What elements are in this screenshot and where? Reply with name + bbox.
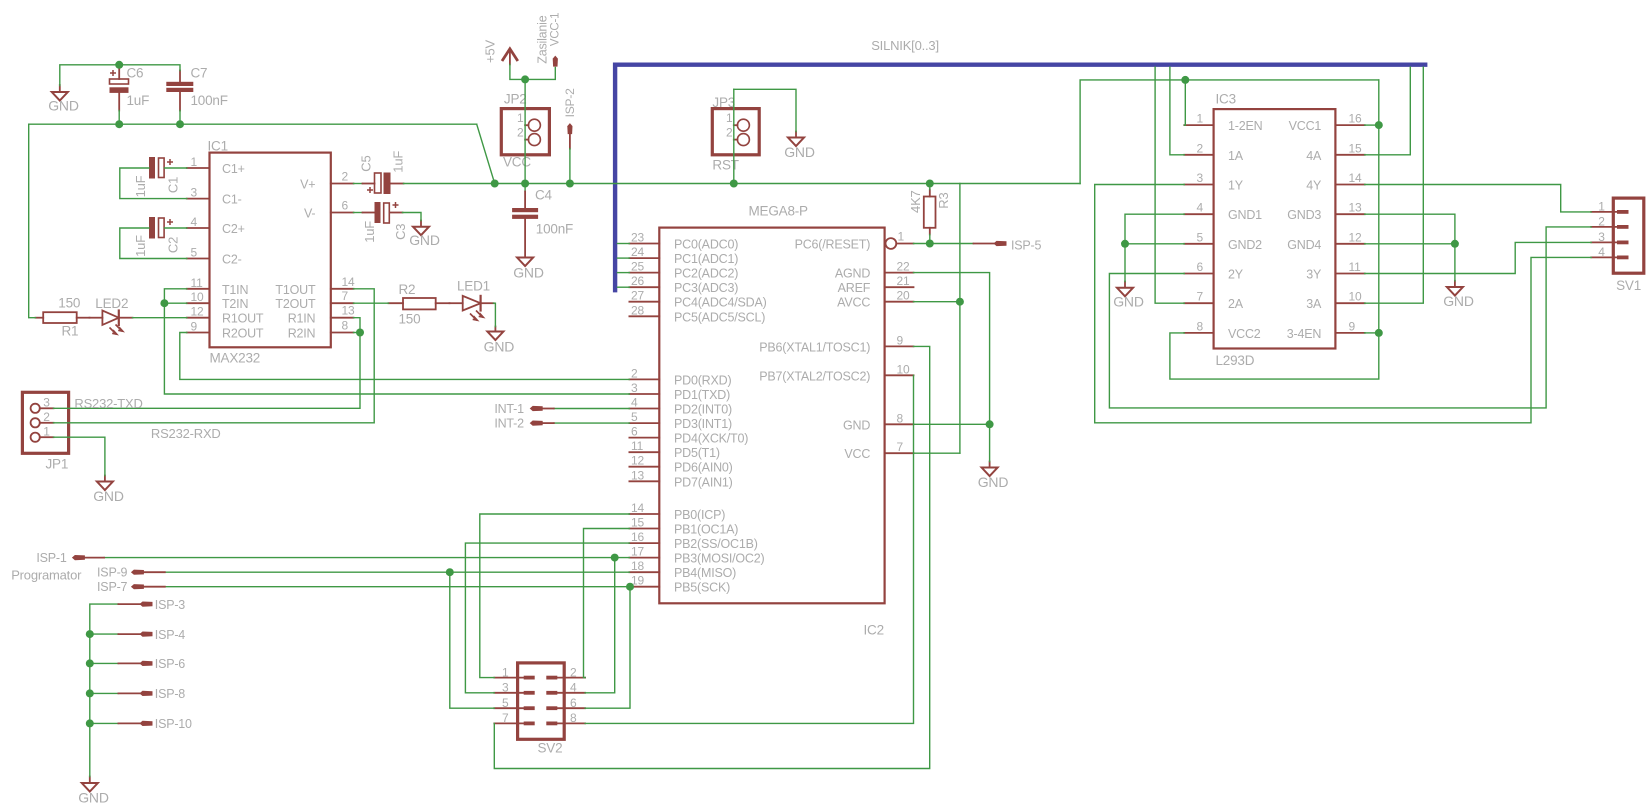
wire PB0 to SV2 pin1 (480, 514, 630, 678)
SV1 pin 1 (1591, 199, 1628, 213)
svg-text:9: 9 (1349, 319, 1356, 333)
flag ISP-6 (118, 657, 185, 671)
svg-text:10: 10 (191, 290, 204, 304)
wire C5 to +5V rail (391, 183, 495, 185)
svg-text:PD3(INT1): PD3(INT1) (674, 417, 732, 431)
wire ISP-6 branch (90, 662, 119, 664)
svg-text:13: 13 (342, 304, 355, 318)
wire PB7 XTAL2 to SV2 pin8 (585, 375, 913, 723)
svg-text:T1OUT: T1OUT (275, 283, 316, 297)
flag ISP-3 (118, 598, 185, 612)
svg-text:1Y: 1Y (1228, 179, 1244, 193)
junction at C6 top (115, 61, 123, 69)
LED1 (450, 279, 494, 321)
svg-text:3: 3 (631, 381, 638, 395)
junction ISP-6 (86, 659, 94, 667)
junction +5V node (521, 75, 529, 83)
svg-text:1: 1 (43, 424, 50, 438)
+5V supply symbol (483, 40, 518, 65)
svg-text:ISP-9: ISP-9 (97, 566, 128, 580)
svg-text:23: 23 (631, 231, 644, 245)
svg-text:18: 18 (631, 559, 644, 573)
svg-text:SV1: SV1 (1616, 278, 1641, 293)
svg-text:PD6(AIN0): PD6(AIN0) (674, 461, 733, 475)
JP2 name label (504, 92, 527, 107)
ground symbol below ISP chain (78, 777, 109, 806)
svg-text:1uF: 1uF (391, 151, 406, 173)
svg-text:PB4(MISO): PB4(MISO) (674, 566, 736, 580)
svg-text:R1OUT: R1OUT (222, 312, 264, 326)
ground symbol near C6 (48, 85, 79, 114)
bus SILNIK[0..3] (615, 65, 1425, 291)
IC2 pin 13 PD7(AIN1) (629, 468, 732, 489)
wire IC3 GND1/GND2 (1125, 214, 1184, 281)
svg-text:C1-: C1- (222, 193, 242, 207)
svg-text:10: 10 (1349, 290, 1362, 304)
wire T1OUT to JP1 pin2 RS232-RXD (54, 289, 375, 423)
IC2 pin 12 PD6(AIN0) (629, 454, 732, 475)
wire LED2 to R1OUT (133, 317, 187, 319)
wire VCC right vertical (1170, 80, 1379, 379)
IC1 pin 9 R2OUT (187, 320, 264, 341)
IC2 pin 15 PB1(OC1A) (629, 516, 738, 537)
wire R1IN/R2IN to JP1 pin3 RS232-TXD (54, 318, 361, 409)
svg-text:GND: GND (409, 232, 440, 248)
IC2 pin 17 PB3(MOSI/OC2) (629, 545, 764, 566)
junction rail JP2 (521, 180, 529, 188)
svg-text:GND: GND (78, 790, 109, 806)
wire RESET to ISP-5 (914, 243, 996, 245)
IC3 value L293D (1216, 353, 1255, 368)
svg-text:C1: C1 (166, 177, 181, 193)
svg-text:12: 12 (1349, 230, 1362, 244)
svg-text:5: 5 (1197, 230, 1204, 244)
svg-text:IC3: IC3 (1216, 92, 1236, 107)
flag ISP-1 (36, 551, 85, 565)
svg-text:Zasilanie: Zasilanie (536, 15, 550, 63)
wire 4Y to SV1 pin1 (1365, 185, 1592, 212)
svg-text:IC2: IC2 (864, 623, 884, 638)
svg-text:AGND: AGND (835, 267, 870, 281)
junction RESET (926, 240, 934, 248)
JP2 pin 1 (517, 111, 540, 131)
svg-text:1uF: 1uF (133, 175, 148, 197)
wire bus tap 2A (1155, 67, 1184, 303)
SV1 pin 4 (1591, 245, 1628, 259)
JP3 value RST (712, 158, 738, 173)
IC2 pin 1 PC6(/RESET) with inversion bubble (795, 230, 914, 252)
svg-text:VCC2: VCC2 (1228, 327, 1261, 341)
ground symbol near IC3 GND2 (1113, 282, 1144, 310)
svg-text:R2IN: R2IN (288, 327, 316, 341)
IC IC1 MAX232 body (210, 153, 331, 348)
wire +5V rail diagonal (477, 124, 495, 183)
junction ISP-10 (86, 719, 94, 727)
JP2 value VCC (503, 155, 531, 170)
junction ISP-4 (86, 630, 94, 638)
flag INT-1 (494, 402, 542, 416)
wire LED1 to GND (494, 303, 496, 326)
svg-text:ISP-10: ISP-10 (155, 717, 192, 731)
JP1 name label (46, 457, 69, 472)
IC3 pin 4 GND1 (1184, 201, 1262, 223)
svg-text:13: 13 (631, 468, 644, 482)
junction ISP-8 (86, 689, 94, 697)
svg-text:C4: C4 (535, 188, 553, 203)
svg-text:12: 12 (191, 305, 204, 319)
svg-text:JP2: JP2 (504, 92, 527, 107)
svg-text:14: 14 (342, 275, 355, 289)
svg-text:3: 3 (43, 396, 50, 410)
svg-text:3A: 3A (1306, 297, 1322, 311)
svg-text:5: 5 (191, 246, 198, 260)
SV1 pin 3 (1591, 230, 1628, 244)
svg-text:15: 15 (631, 516, 644, 530)
svg-text:C7: C7 (191, 66, 208, 81)
wire to IC3 pin1 1-2EN (1184, 80, 1185, 125)
wire R3 bottom (929, 235, 931, 244)
svg-text:GND3: GND3 (1287, 208, 1321, 222)
svg-text:4K7: 4K7 (908, 190, 923, 213)
svg-text:4Y: 4Y (1306, 179, 1322, 193)
junction 3-4EN (1375, 329, 1383, 337)
svg-text:R3: R3 (936, 192, 951, 208)
svg-text:VCC: VCC (503, 155, 531, 170)
wire PB4 down to SV2 pin5 (450, 572, 495, 708)
junction R2IN (356, 329, 364, 337)
svg-text:1: 1 (1197, 112, 1204, 126)
IC3 pin 2 1A (1184, 141, 1243, 163)
svg-text:6: 6 (570, 696, 577, 710)
svg-text:150: 150 (58, 296, 80, 311)
svg-text:8: 8 (1197, 319, 1204, 333)
junction VCC1 (1375, 121, 1383, 129)
connector SV2 body (518, 663, 565, 739)
IC3 pin 12 GND4 (1287, 230, 1364, 252)
IC2 pin 21 AREF (838, 274, 914, 295)
svg-text:C2: C2 (166, 237, 181, 253)
wire left vertical to R1 (29, 124, 36, 318)
IC2 pin 16 PB2(SS/OC1B) (629, 530, 757, 551)
svg-text:T2OUT: T2OUT (275, 297, 316, 311)
svg-text:17: 17 (631, 545, 644, 559)
svg-text:GND4: GND4 (1287, 238, 1321, 252)
svg-text:GND: GND (93, 488, 124, 504)
junction rail JP3 (730, 180, 738, 188)
IC3 pin 1 1-2EN (1184, 112, 1262, 134)
bus label SILNIK[0..3] (871, 38, 939, 53)
svg-text:LED1: LED1 (457, 279, 490, 294)
wire T1IN/T2IN to PD1(TXD) (164, 289, 629, 394)
svg-text:GND2: GND2 (1228, 238, 1262, 252)
flag INT-2 (494, 417, 542, 431)
svg-text:4: 4 (631, 396, 638, 410)
SV2 pin 4 (546, 681, 585, 695)
svg-text:100nF: 100nF (536, 222, 573, 237)
svg-text:2: 2 (1598, 214, 1605, 228)
svg-text:1uF: 1uF (127, 93, 150, 108)
ground symbol near C3 (409, 221, 440, 249)
svg-text:L293D: L293D (1216, 353, 1255, 368)
IC2 pin 7 VCC (844, 440, 913, 461)
SV2 pin 8 (546, 711, 585, 725)
svg-text:1uF: 1uF (133, 235, 148, 257)
svg-text:2Y: 2Y (1228, 268, 1244, 282)
svg-text:SILNIK[0..3]: SILNIK[0..3] (871, 38, 939, 53)
svg-text:8: 8 (570, 711, 577, 725)
JP3 pin 2 (726, 126, 749, 146)
svg-text:C5: C5 (359, 155, 374, 171)
wire PB3 down to SV2 pin4 (585, 558, 615, 693)
IC3 pin 13 GND3 (1287, 201, 1364, 223)
flag ISP-7 (97, 580, 144, 594)
capacitor C1 (polarized) (133, 157, 181, 197)
IC2 pin 6 PD4(XCK/T0) (629, 425, 748, 446)
wire V+ pin2 to C5 (354, 183, 375, 185)
IC1 pin 12 R1OUT (187, 305, 264, 326)
svg-text:2: 2 (517, 126, 524, 140)
svg-text:9: 9 (897, 333, 904, 347)
svg-text:AREF: AREF (838, 281, 871, 295)
SV2 pin 5 (494, 696, 534, 710)
svg-text:1A: 1A (1228, 149, 1244, 163)
JP1 pin 1 (31, 424, 54, 441)
svg-text:3Y: 3Y (1306, 268, 1322, 282)
IC2 pin 28 PC5(ADC5/SCL) (629, 303, 765, 324)
svg-text:V+: V+ (300, 178, 315, 192)
wire rail y124 with C6/C7 bottoms (29, 111, 477, 125)
wire C3 to GND (390, 213, 422, 221)
JP1 pin 2 (31, 410, 54, 427)
svg-text:PB5(SCK): PB5(SCK) (674, 581, 730, 595)
wire bus tap 1A (1170, 67, 1184, 155)
wire ISP-1 / PB3 MOSI (84, 557, 629, 559)
svg-text:16: 16 (631, 530, 644, 544)
svg-text:T2IN: T2IN (222, 297, 248, 311)
svg-text:MEGA8-P: MEGA8-P (749, 204, 809, 219)
svg-text:5: 5 (502, 696, 509, 710)
svg-text:GND: GND (484, 339, 515, 355)
svg-text:PD1(TXD): PD1(TXD) (674, 388, 730, 402)
wire 1Y to SV1 pin4 (1095, 185, 1592, 423)
SV2 pin 3 (494, 681, 534, 695)
svg-text:VCC-1: VCC-1 (550, 13, 562, 47)
svg-text:14: 14 (1349, 171, 1362, 185)
svg-text:ISP-8: ISP-8 (155, 687, 186, 701)
JP3 name label (712, 95, 735, 110)
wire bus tap 3A (1365, 67, 1424, 303)
IC1 pin 4 C2+ (187, 215, 245, 236)
svg-text:R1: R1 (62, 324, 79, 339)
svg-text:14: 14 (631, 501, 644, 515)
wire V- pin6 to C3 (354, 212, 375, 214)
LED2 (90, 296, 133, 335)
svg-text:C6: C6 (127, 66, 144, 81)
svg-text:1-2EN: 1-2EN (1228, 119, 1263, 133)
svg-text:C2+: C2+ (222, 222, 245, 236)
svg-text:C1+: C1+ (222, 162, 245, 176)
svg-text:C2-: C2- (222, 253, 242, 267)
IC1 pin 6 V- (304, 199, 354, 221)
wire ISP-9 / PB4 MISO (143, 571, 629, 573)
junction rail ISP-2 (566, 180, 574, 188)
wire C4 branch (524, 184, 526, 209)
IC2 pin 14 PB0(ICP) (629, 501, 725, 522)
svg-text:R2OUT: R2OUT (222, 327, 264, 341)
IC3 pin 7 2A (1184, 290, 1243, 312)
svg-text:150: 150 (399, 312, 421, 327)
wire PB2 to SV2 pin3 (465, 543, 629, 693)
svg-text:+5V: +5V (483, 40, 498, 63)
wire C1 loop pin1-pin3 (120, 168, 187, 199)
wire C2 loop pin4-pin5 (120, 228, 187, 259)
IC3 L293D body (1214, 109, 1336, 348)
IC2 pin 22 AGND (835, 260, 914, 281)
wire IC3 GND3/GND4 (1365, 214, 1455, 281)
svg-text:ISP-4: ISP-4 (155, 628, 186, 642)
svg-text:25: 25 (631, 260, 644, 274)
wire PB5 down to SV2 pin6 (585, 587, 630, 709)
junction C6 bottom (115, 120, 123, 128)
svg-text:MAX232: MAX232 (210, 351, 261, 366)
svg-text:21: 21 (897, 274, 910, 288)
SV2 pin 7 (494, 711, 534, 725)
wire ISP-7 / PB5 SCK (143, 586, 629, 588)
ground symbol near IC3 GND4 (1443, 281, 1474, 309)
svg-text:PC3(ADC3): PC3(ADC3) (674, 281, 738, 295)
wire ISP-4 branch (90, 633, 119, 635)
svg-text:2: 2 (631, 366, 638, 380)
svg-text:PD0(RXD): PD0(RXD) (674, 373, 731, 387)
svg-text:28: 28 (631, 303, 644, 317)
svg-text:12: 12 (631, 454, 644, 468)
svg-text:AVCC: AVCC (837, 296, 870, 310)
svg-text:20: 20 (897, 289, 910, 303)
svg-text:5: 5 (631, 410, 638, 424)
svg-text:10: 10 (897, 362, 910, 376)
junction GND4 (1451, 240, 1459, 248)
ground symbol below C4 (513, 219, 544, 281)
svg-text:GND: GND (978, 474, 1009, 490)
svg-text:3: 3 (502, 681, 509, 695)
svg-text:16: 16 (1349, 112, 1362, 126)
wire T2OUT to R2 (354, 302, 389, 304)
svg-text:27: 27 (631, 289, 644, 303)
wire ISP ground chain (90, 604, 119, 776)
svg-text:R2: R2 (399, 282, 416, 297)
wire R3 top (929, 184, 931, 190)
wire 3Y to SV1 pin3 (1365, 242, 1592, 273)
svg-text:Programator: Programator (11, 568, 82, 583)
junction PB5 (626, 583, 634, 591)
IC2 pin 25 PC2(ADC2) (629, 260, 738, 281)
svg-text:2: 2 (43, 410, 50, 424)
ground symbol near IC2 AGND (978, 462, 1009, 491)
svg-text:3-4EN: 3-4EN (1287, 327, 1322, 341)
junction IC3 EN branch (1181, 76, 1189, 84)
svg-text:GND: GND (784, 144, 815, 160)
IC1 value MAX232 (210, 351, 261, 366)
svg-text:PD5(T1): PD5(T1) (674, 446, 720, 460)
connector JP1 body (22, 392, 68, 453)
net label RS232-TXD (74, 396, 142, 411)
wire +5V rail horizontal (495, 183, 1080, 185)
IC2 pin 8 GND (843, 411, 913, 432)
junction AVCC (956, 298, 964, 306)
svg-text:PC0(ADC0): PC0(ADC0) (674, 238, 738, 252)
SV2 pin 2 (546, 665, 585, 679)
flag ISP-2 (563, 88, 577, 149)
capacitor C3 (polarized) (362, 202, 408, 243)
junction C7 bottom (176, 120, 184, 128)
svg-text:3: 3 (191, 186, 198, 200)
IC3 pin 5 GND2 (1184, 230, 1262, 252)
IC1 pin 7 T2OUT (275, 289, 353, 311)
IC2 pin 23 PC0(ADC0) (629, 231, 738, 252)
svg-text:PD7(AIN1): PD7(AIN1) (674, 475, 733, 489)
IC3 pin 6 2Y (1184, 260, 1243, 282)
svg-text:ISP-3: ISP-3 (155, 598, 186, 612)
resistor R1 (36, 296, 90, 339)
wire bus tap 4A (1365, 67, 1411, 155)
svg-text:PB1(OC1A): PB1(OC1A) (674, 523, 738, 537)
IC3 pin 15 4A (1306, 141, 1364, 163)
SV1 name label (1616, 278, 1641, 293)
svg-text:PD2(INT0): PD2(INT0) (674, 403, 732, 417)
wire bus taps PC0-PC3 (618, 244, 630, 288)
svg-text:1: 1 (1598, 199, 1605, 213)
IC1 pin 2 V+ (300, 170, 353, 192)
svg-text:PB0(ICP): PB0(ICP) (674, 508, 725, 522)
svg-text:11: 11 (1349, 260, 1362, 274)
svg-text:PB3(MOSI/OC2): PB3(MOSI/OC2) (674, 552, 765, 566)
svg-text:4: 4 (191, 215, 198, 229)
IC3 name label (1216, 92, 1236, 107)
svg-text:IC1: IC1 (208, 139, 228, 154)
svg-text:T1IN: T1IN (222, 283, 248, 297)
svg-text:2: 2 (1197, 141, 1204, 155)
SV2 pin 6 (546, 696, 585, 710)
svg-text:GND: GND (1443, 293, 1474, 309)
IC2 MEGA8-P body (659, 228, 884, 604)
svg-text:7: 7 (342, 289, 349, 303)
SV2 pin 1 (494, 665, 534, 679)
IC2 pin 11 PD5(T1) (629, 439, 719, 460)
capacitor C7 (166, 66, 227, 111)
IC2 pin 3 PD1(TXD) (629, 381, 730, 402)
svg-text:INT-1: INT-1 (494, 402, 524, 416)
IC2 pin 20 AVCC (837, 289, 913, 310)
connector JP3 body (712, 109, 759, 155)
wire PB6 XTAL1 to SV2 pin7 (494, 346, 929, 768)
svg-text:GND: GND (513, 265, 544, 281)
wire AGND to GND pin (914, 273, 990, 462)
svg-text:ISP-6: ISP-6 (155, 657, 186, 671)
svg-text:VCC: VCC (844, 447, 870, 461)
junction rail R3 (926, 180, 934, 188)
IC3 pin 16 VCC1 (1289, 112, 1365, 134)
SV2 name label (538, 741, 563, 756)
SV1 pin 2 (1591, 214, 1628, 228)
svg-text:4: 4 (1598, 245, 1605, 259)
IC2 pin 27 PC4(ADC4/SDA) (629, 289, 766, 310)
resistor R3 (908, 190, 951, 235)
net label RS232-RXD (151, 426, 221, 441)
ground symbol near JP3 (784, 132, 815, 161)
svg-text:LED2: LED2 (95, 296, 128, 311)
flag ISP-5 (994, 238, 1042, 252)
svg-text:1: 1 (502, 665, 509, 679)
